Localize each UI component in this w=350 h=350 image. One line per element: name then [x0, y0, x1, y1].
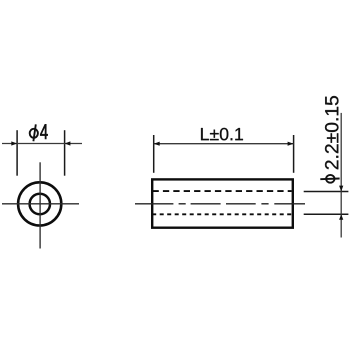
phi4 label: phi symbol [30, 124, 38, 141]
side view rectangle (cylinder body) [152, 179, 293, 227]
L dimension line [154, 143, 294, 145]
front view: inner circle (hole) [30, 194, 50, 214]
phi4 left extension line [16, 130, 18, 176]
phi2.2 top arrow (outside, pointing down) [339, 186, 343, 192]
phi4 right extension line [64, 130, 66, 176]
L right arrow (inside, pointing right) [288, 142, 294, 146]
phi4 left arrow (outside, pointing right) [11, 141, 17, 145]
L left arrow (inside, pointing left) [154, 142, 160, 146]
hidden line bottom (hole) [152, 213, 291, 215]
phi4 dimension line [2, 143, 82, 145]
phi2.2 bottom extension line [304, 213, 349, 215]
phi2.2 label: phi symbol (rotated) [320, 175, 339, 183]
L dimension right extension line [293, 135, 295, 173]
L dimension left extension line [153, 135, 155, 173]
front view: outer circle (spacer OD) [18, 182, 61, 225]
phi4 right arrow (outside, pointing left) [65, 141, 71, 145]
L dimension label [201, 128, 243, 141]
front view horizontal centerline [2, 203, 79, 205]
phi2.2 top extension line [304, 191, 349, 193]
hidden line top (hole) [153, 190, 292, 192]
phi2.2 bottom arrow (outside, pointing up) [339, 214, 343, 220]
side view chain centerline [135, 203, 305, 205]
phi2.2 label: 2.2 +/- 0.15 (rotated) [325, 96, 338, 169]
phi2.2 vertical dimension line [340, 113, 342, 238]
phi4 label: 4 [40, 124, 47, 139]
front view vertical centerline [39, 162, 41, 248]
